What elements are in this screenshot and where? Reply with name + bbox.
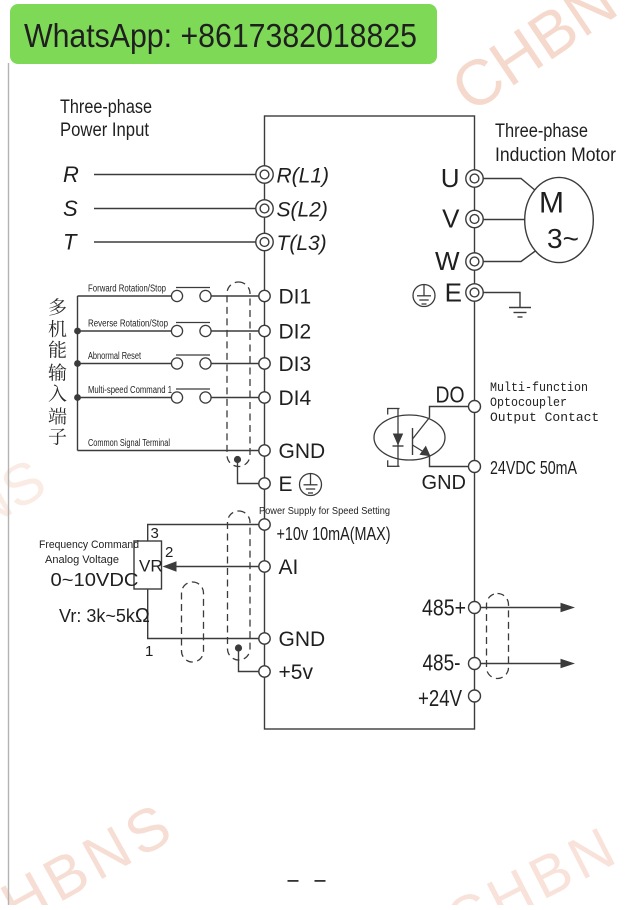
svg-text:DI4: DI4	[279, 387, 312, 410]
wire: common bus for digital inputs	[77, 296, 79, 451]
svg-text:W: W	[435, 246, 460, 276]
svg-text:DI2: DI2	[279, 321, 312, 344]
svg-text:+24V: +24V	[418, 685, 463, 711]
terminal AI	[259, 556, 299, 579]
wire 485+ out	[481, 603, 576, 612]
svg-text:S(L2): S(L2)	[277, 199, 328, 222]
svg-text:DO: DO	[436, 382, 465, 408]
shield (screened cable) around analog wires	[228, 511, 251, 660]
svg-text:GND: GND	[422, 472, 466, 494]
terminal U	[441, 163, 483, 193]
terminal T(L3)	[256, 232, 327, 255]
wire T to terminal T(L3)	[94, 241, 256, 243]
svg-text:WhatsApp: +8617382018825: WhatsApp: +8617382018825	[24, 17, 417, 54]
svg-text:Frequency Command: Frequency Command	[39, 539, 139, 551]
svg-text:Vr: 3k~5kΩ: Vr: 3k~5kΩ	[59, 605, 150, 627]
svg-text:2: 2	[165, 544, 173, 561]
svg-text:Power Supply for Speed Setting: Power Supply for Speed Setting	[259, 506, 390, 517]
terminal E (left)	[259, 473, 293, 496]
svg-text:T: T	[63, 230, 78, 255]
wire common to terminal GND	[78, 450, 259, 452]
terminal GND (analog)	[259, 628, 325, 651]
terminal DI1	[259, 286, 311, 309]
svg-text:GND: GND	[279, 440, 326, 463]
svg-text:VR: VR	[139, 557, 163, 576]
shield (screened cable) short	[182, 582, 204, 662]
svg-text:Analog Voltage: Analog Voltage	[45, 554, 119, 566]
terminal W	[435, 246, 483, 276]
svg-text:Multi-function: Multi-function	[490, 380, 588, 395]
svg-text:Forward Rotation/Stop: Forward Rotation/Stop	[88, 284, 166, 295]
wire bus to switch DI1	[78, 295, 172, 297]
terminal 485-	[423, 650, 481, 676]
wire W to motor	[483, 251, 536, 262]
wire R to terminal R(L1)	[94, 174, 256, 176]
switch S3 (Abnormal Reset)	[171, 355, 211, 369]
protective earth symbol (left)	[300, 474, 322, 496]
wiper arrow into VR	[163, 561, 177, 571]
terminal +10v	[259, 519, 391, 544]
svg-text:Three-phase: Three-phase	[60, 97, 152, 118]
label: Multi-function Optocoupler Output Contact	[490, 380, 599, 425]
terminal E (right)	[445, 278, 484, 308]
terminal GND (right)	[422, 461, 481, 495]
wire bus to switch DI2	[78, 330, 172, 332]
svg-text:Output Contact: Output Contact	[490, 410, 599, 425]
wire V to motor	[483, 219, 525, 221]
wire switch to terminal DI2	[211, 330, 259, 332]
ground (motor frame)	[509, 308, 531, 318]
label: Three-phase Induction Motor	[495, 121, 617, 166]
switch S2 (Reverse Rotation/Stop)	[171, 323, 211, 337]
motor M 3~	[525, 177, 594, 262]
svg-text:DI3: DI3	[279, 353, 312, 376]
svg-text:Reverse Rotation/Stop: Reverse Rotation/Stop	[88, 319, 168, 330]
svg-text:3: 3	[151, 525, 159, 542]
label: multi-function input terminals (Chinese)	[48, 298, 66, 445]
terminal DO	[436, 382, 481, 413]
wire switch to terminal DI4	[211, 397, 259, 399]
wire E to frame ground	[483, 293, 520, 308]
optocoupler U2	[374, 409, 445, 467]
wire bus to switch DI3	[78, 363, 172, 365]
terminal DI4	[259, 387, 312, 410]
junction on bus at DI2	[74, 328, 81, 335]
terminal R(L1)	[256, 165, 329, 188]
svg-text:485-: 485-	[423, 650, 461, 676]
terminal +24V	[418, 685, 481, 711]
shield (screened cable) around DI wires	[227, 282, 250, 467]
svg-text:T(L3): T(L3)	[277, 232, 327, 255]
wire AI to VR wiper	[175, 566, 259, 568]
switch S4 (Multi-speed Command 1)	[171, 389, 211, 403]
wire optocoupler emitter to GND	[430, 456, 469, 467]
terminal 485+	[422, 595, 481, 621]
terminal S(L2)	[256, 199, 328, 222]
svg-text:Multi-speed Command 1: Multi-speed Command 1	[88, 385, 172, 396]
wire switch to terminal DI1	[211, 295, 259, 297]
svg-text:E: E	[279, 473, 293, 496]
junction on bus at DI4	[74, 394, 81, 401]
wire DO to optocoupler collector	[430, 407, 469, 418]
terminal +5v	[259, 661, 314, 684]
svg-text:3~: 3~	[547, 223, 579, 254]
svg-text:485+: 485+	[422, 595, 466, 621]
svg-text:+5v: +5v	[279, 661, 314, 684]
terminal DI3	[259, 353, 311, 376]
wire U to motor	[483, 179, 536, 192]
wire 485- out	[481, 659, 576, 668]
svg-text:1: 1	[145, 643, 153, 660]
svg-text:24VDC 50mA: 24VDC 50mA	[490, 458, 577, 478]
svg-text:Power Input: Power Input	[60, 120, 150, 141]
svg-text:U: U	[441, 163, 460, 193]
wire shield drain to +5v	[239, 648, 259, 672]
wire switch to terminal DI3	[211, 363, 259, 365]
svg-text:Abnormal Reset: Abnormal Reset	[88, 351, 141, 362]
wire VR pin3 to +10v	[148, 525, 259, 542]
svg-text:Three-phase: Three-phase	[495, 121, 588, 142]
svg-text:AI: AI	[279, 556, 299, 579]
label: Three-phase Power Input	[60, 97, 152, 141]
junction: analog shield drain	[235, 644, 242, 651]
terminal GND (left)	[259, 440, 325, 463]
label: Frequency Command Analog Voltage	[39, 539, 139, 566]
page indicator dashes	[288, 880, 326, 882]
svg-text:V: V	[442, 204, 460, 234]
svg-text:Optocoupler: Optocoupler	[490, 395, 567, 410]
junction: shield drain	[234, 456, 241, 463]
potentiometer VR	[134, 541, 163, 589]
svg-text:+10v 10mA(MAX): +10v 10mA(MAX)	[277, 524, 391, 544]
WhatsApp banner	[10, 4, 437, 64]
wire S to terminal S(L2)	[94, 208, 256, 210]
svg-text:0~10VDC: 0~10VDC	[51, 570, 139, 590]
svg-text:R(L1): R(L1)	[277, 165, 330, 188]
wire VR pin1 to GND	[148, 589, 259, 639]
svg-text:E: E	[445, 278, 462, 308]
svg-text:GND: GND	[279, 628, 326, 651]
wire shield drain to terminal E	[238, 460, 259, 484]
protective earth symbol (right)	[413, 285, 435, 307]
svg-text:Induction Motor: Induction Motor	[495, 145, 617, 166]
svg-text:S: S	[63, 196, 78, 221]
inverter unit box U1	[265, 116, 475, 729]
svg-text:DI1: DI1	[279, 286, 312, 309]
switch S1 (Forward Rotation/Stop)	[171, 288, 211, 302]
svg-text:Common Signal Terminal: Common Signal Terminal	[88, 438, 170, 449]
junction on bus at DI3	[74, 360, 81, 367]
terminal V	[442, 204, 483, 234]
svg-text:M: M	[539, 187, 564, 220]
svg-text:R: R	[63, 162, 79, 187]
wire bus to switch DI4	[78, 397, 172, 399]
terminal DI2	[259, 321, 311, 344]
shield (screened cable) around 485 pair	[487, 594, 509, 679]
